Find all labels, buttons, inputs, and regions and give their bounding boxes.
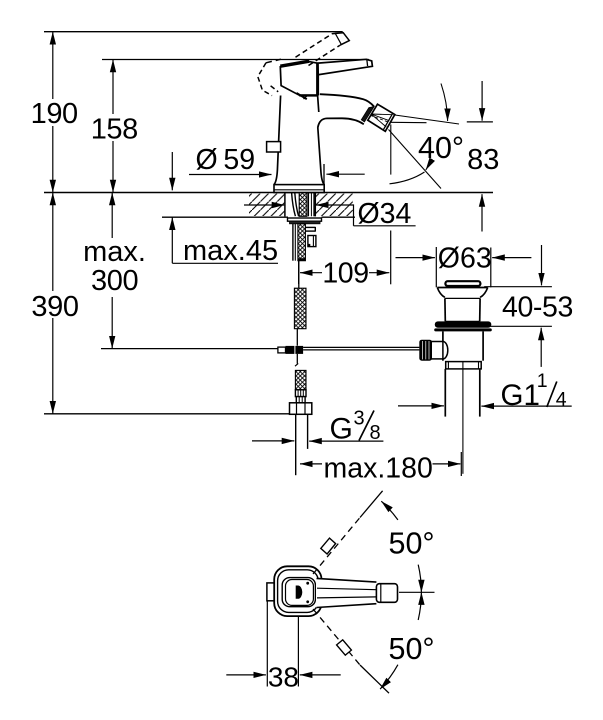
svg-text:Ø63: Ø63 xyxy=(438,242,492,274)
dimension diameter 34 xyxy=(244,198,416,230)
shank side stub xyxy=(305,227,315,232)
dimension 109 xyxy=(299,231,391,290)
max300 reference line xyxy=(101,348,278,350)
svg-text:50°: 50° xyxy=(389,527,435,561)
svg-text:G: G xyxy=(330,413,353,446)
pop-up waste bell flange xyxy=(437,288,487,299)
handle lever (rest position) xyxy=(318,59,372,74)
svg-text:max.180: max.180 xyxy=(324,452,433,484)
dimension diameter 63 xyxy=(396,242,532,287)
G3/8 hex nut xyxy=(290,403,312,415)
svg-text:50°: 50° xyxy=(389,632,435,666)
dimension 40-53 xyxy=(484,245,573,367)
supply hose upper line xyxy=(298,261,300,288)
svg-text:1: 1 xyxy=(537,370,548,392)
handle escutcheon (rest position) xyxy=(280,61,317,95)
pop-up waste lower ring nut xyxy=(446,362,482,369)
svg-text:40°: 40° xyxy=(418,131,464,165)
hose neck xyxy=(296,397,305,403)
faucet base plinth xyxy=(274,185,324,193)
aerator xyxy=(368,104,395,131)
hose line below coupler xyxy=(295,354,298,366)
svg-text:158: 158 xyxy=(91,114,138,146)
pop-up waste body xyxy=(443,331,483,360)
top view center line xyxy=(399,591,435,593)
dimension max.300 xyxy=(83,193,146,349)
dimension 38 xyxy=(226,601,340,693)
svg-text:83: 83 xyxy=(467,144,499,176)
dimension diameter 59 xyxy=(189,144,365,192)
dimension 83 xyxy=(467,81,500,232)
lower lever tip (rotated) xyxy=(337,640,352,655)
svg-text:40-53: 40-53 xyxy=(502,291,573,323)
svg-text:300: 300 xyxy=(91,265,138,297)
top view escutcheon rings xyxy=(274,566,321,616)
pop-up rod knurled knob xyxy=(419,340,432,361)
horizontal pop-up rod xyxy=(303,347,419,350)
threaded shank below nut xyxy=(298,224,306,261)
counter hole left edge xyxy=(284,193,286,217)
handle escutcheon raised (dashed) xyxy=(258,59,281,95)
braided hose segment 1 xyxy=(294,288,306,329)
pop-up waste upper cylinder xyxy=(445,298,480,321)
dimension max.45 xyxy=(172,152,278,267)
pop-up rod coupler xyxy=(278,346,303,354)
svg-text:190: 190 xyxy=(31,98,78,130)
hose crimp sleeve xyxy=(295,390,306,397)
wire top reference line (handle raised top, 190) xyxy=(44,31,343,33)
mounting nut xyxy=(290,221,321,224)
dimension 158 xyxy=(91,60,138,193)
lower swing ray (dashed) xyxy=(313,609,389,693)
faucet spout xyxy=(318,94,374,127)
top view D mark xyxy=(296,586,303,599)
handle pivot tick xyxy=(297,93,308,99)
svg-text:Ø34: Ø34 xyxy=(358,198,412,230)
top view lever xyxy=(316,578,398,607)
dimension 40 degrees xyxy=(389,84,465,189)
handle lever raised (dashed) xyxy=(296,33,350,66)
drain center line xyxy=(462,361,464,474)
counter hatch right xyxy=(316,194,353,216)
pop-up waste rubber gasket xyxy=(434,321,492,331)
upper swing ray (dashed) xyxy=(313,491,383,574)
pop-up waste tailpipe xyxy=(445,369,480,417)
upper lever tip (rotated) xyxy=(321,538,336,554)
wire 158 reference line (handle rest top) xyxy=(102,59,369,61)
spout joint band xyxy=(361,107,374,122)
counter hatch left xyxy=(249,194,284,216)
faucet pop-up rod knob (front view, left tab) xyxy=(267,142,281,152)
390 bottom reference line xyxy=(44,413,309,415)
pop-up rod side port xyxy=(431,342,448,359)
dimension 390 xyxy=(31,193,78,414)
svg-text:max.45: max.45 xyxy=(183,235,278,267)
faucet body column xyxy=(274,96,324,185)
supply pipe below nut xyxy=(296,414,308,475)
svg-text:109: 109 xyxy=(322,257,368,289)
svg-text:390: 390 xyxy=(31,291,78,323)
top view pop-up knob tab xyxy=(267,583,280,601)
svg-text:Ø 59: Ø 59 xyxy=(196,144,256,176)
pop-up waste cap xyxy=(445,281,480,286)
shank side bracket xyxy=(308,236,316,247)
dimension 190 xyxy=(31,32,78,192)
dimension G1 1/4 xyxy=(398,370,572,412)
counter top line xyxy=(44,192,493,194)
shank tube below nut xyxy=(293,224,295,261)
svg-text:4: 4 xyxy=(556,389,567,411)
svg-text:3: 3 xyxy=(354,408,365,430)
dimension G 3/8 xyxy=(252,408,383,446)
svg-text:max.: max. xyxy=(83,236,146,268)
dimension 50 degrees lower xyxy=(380,592,435,689)
svg-text:8: 8 xyxy=(370,422,381,444)
dimension max.180 xyxy=(300,452,461,484)
mounting shank hoses in counter hole xyxy=(292,193,299,216)
hose line to coupler xyxy=(296,329,298,346)
svg-text:G1: G1 xyxy=(501,379,540,412)
dimension 50 degrees upper xyxy=(381,501,434,592)
mounting washer xyxy=(288,218,322,221)
counter hole right edge xyxy=(314,193,316,217)
threaded shank in hole xyxy=(299,193,307,217)
braided hose segment 2 xyxy=(295,370,306,389)
svg-text:38: 38 xyxy=(268,662,299,693)
top view escutcheon dots xyxy=(306,582,309,603)
shank right bar xyxy=(308,193,314,216)
counter bottom line xyxy=(162,216,355,218)
